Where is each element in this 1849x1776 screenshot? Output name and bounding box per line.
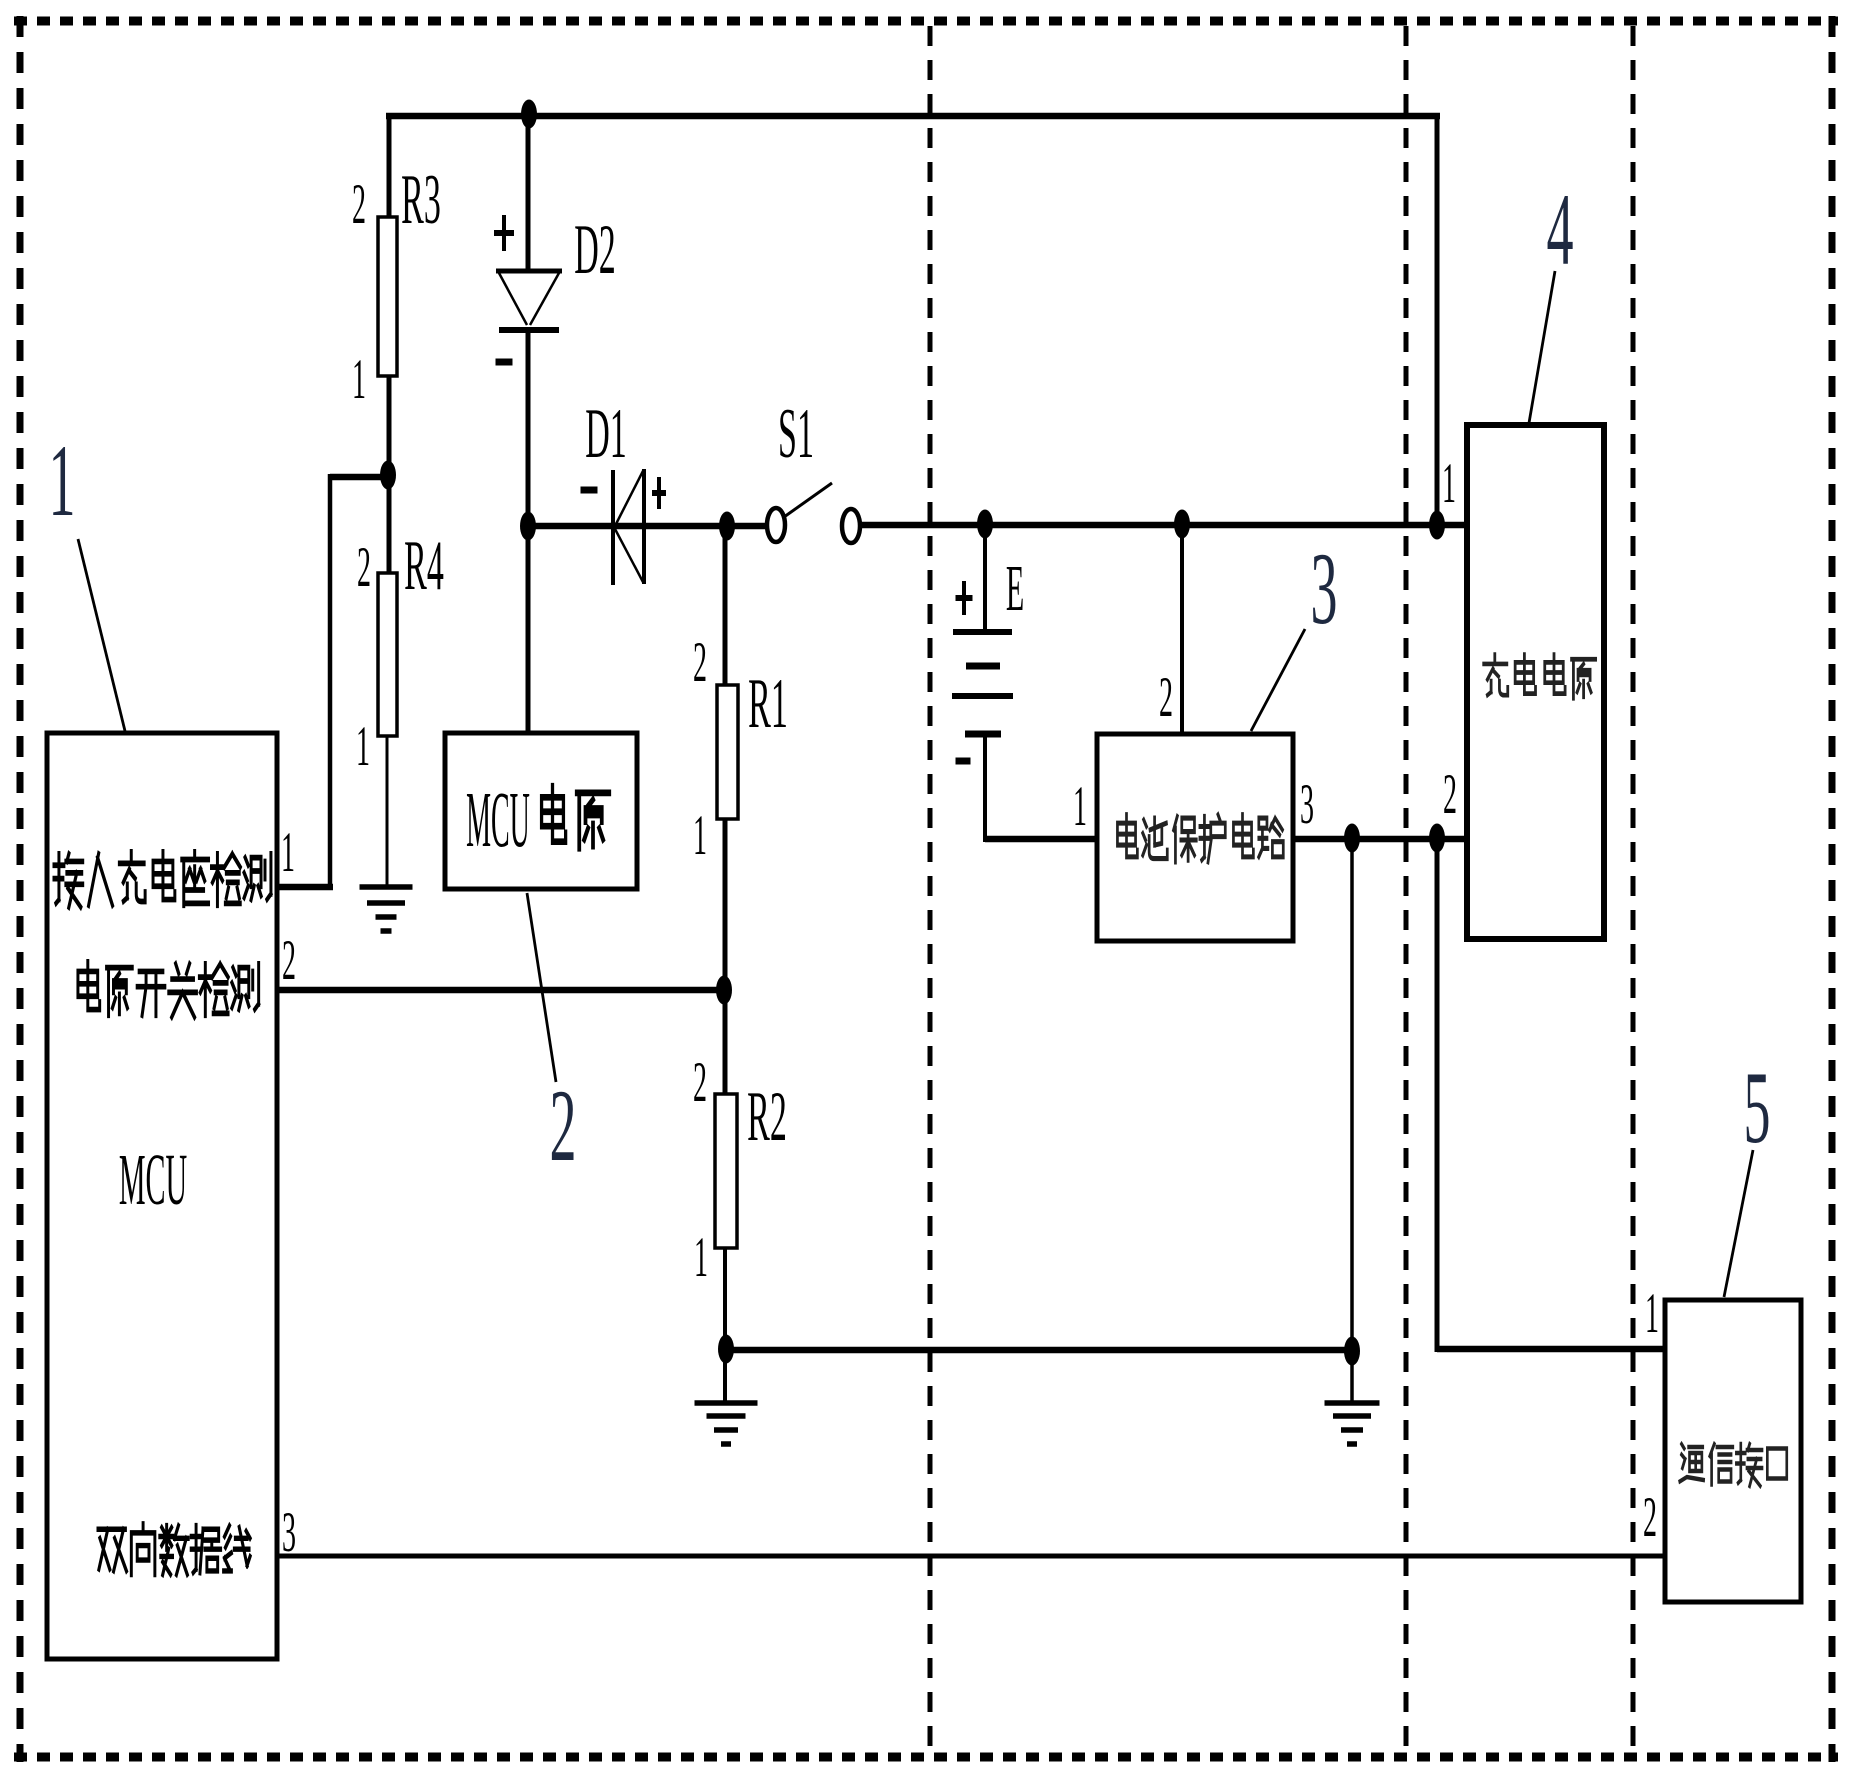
- svg-text:2: 2: [1159, 665, 1173, 729]
- svg-text:2: 2: [1643, 1485, 1657, 1549]
- svg-text:1: 1: [1073, 774, 1087, 838]
- svg-text:1: 1: [694, 1225, 708, 1289]
- svg-text:3: 3: [1311, 532, 1338, 646]
- svg-text:2: 2: [693, 630, 707, 694]
- svg-text:2: 2: [693, 1050, 707, 1114]
- svg-text:5: 5: [1744, 1051, 1771, 1165]
- svg-text:3: 3: [282, 1500, 296, 1564]
- svg-text:2: 2: [550, 1069, 577, 1183]
- svg-text:3: 3: [1300, 772, 1314, 836]
- svg-text:1: 1: [352, 347, 366, 411]
- svg-text:R1: R1: [748, 664, 788, 743]
- svg-text:R2: R2: [747, 1077, 787, 1156]
- svg-text:2: 2: [357, 535, 371, 599]
- svg-text:MCU: MCU: [119, 1140, 187, 1221]
- svg-text:S1: S1: [778, 394, 814, 473]
- svg-text:2: 2: [1443, 762, 1457, 826]
- svg-text:4: 4: [1547, 173, 1574, 287]
- svg-text:2: 2: [352, 172, 366, 236]
- svg-text:1: 1: [356, 714, 370, 778]
- svg-text:1: 1: [1645, 1281, 1659, 1345]
- svg-text:R4: R4: [404, 526, 444, 605]
- svg-text:E: E: [1006, 552, 1024, 625]
- svg-text:D1: D1: [585, 394, 627, 473]
- svg-text:D2: D2: [574, 210, 616, 289]
- svg-text:1: 1: [1442, 451, 1456, 515]
- svg-text:R3: R3: [401, 160, 441, 239]
- svg-text:1: 1: [693, 803, 707, 867]
- svg-text:MCU: MCU: [466, 775, 530, 863]
- svg-text:1: 1: [281, 820, 295, 884]
- svg-text:2: 2: [282, 928, 296, 992]
- svg-text:1: 1: [49, 424, 76, 538]
